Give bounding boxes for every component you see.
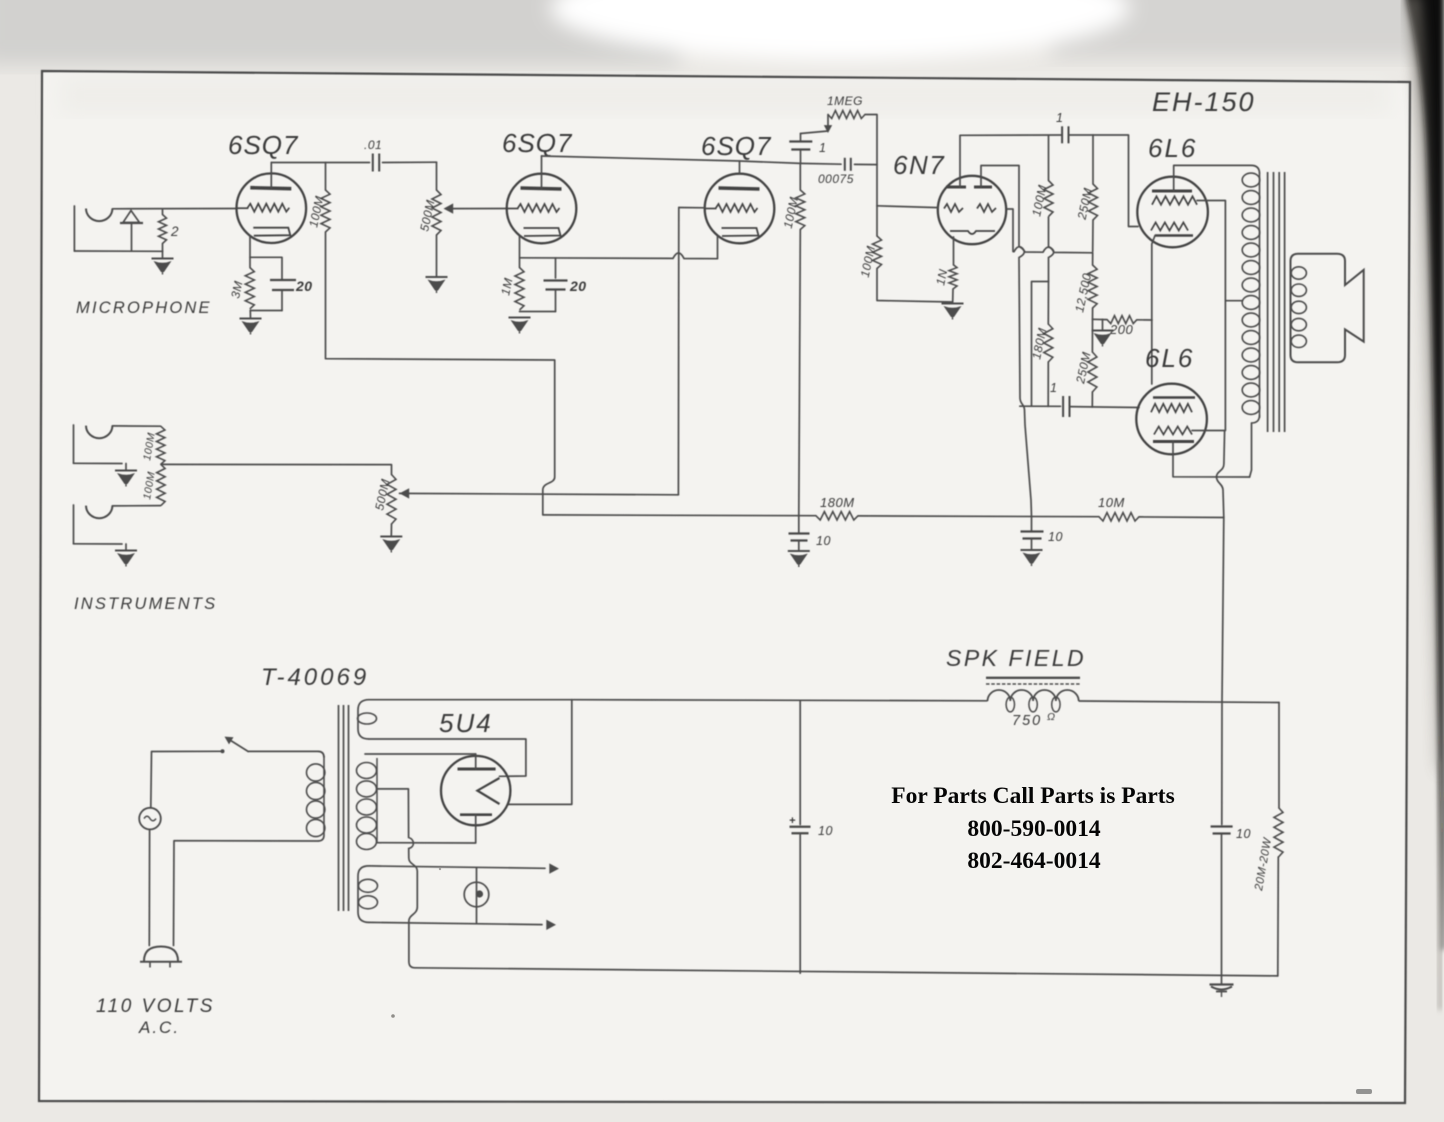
potentiometer 500M (mic volume) [436, 162, 438, 190]
capacitor 1 (to 6L6 V4 grid) [1061, 126, 1063, 143]
output transformer center tap [1225, 300, 1242, 302]
svg-text:T-40069: T-40069 [261, 664, 369, 691]
capacitor .1 [800, 134, 802, 142]
resistor 180M (inverter) [1047, 282, 1049, 325]
wire .01 to 500M pot top [383, 161, 437, 163]
wire 100M bottom with hop over grid2 line [1049, 217, 1054, 282]
svg-text:+: + [789, 815, 796, 827]
wire volume pot line (instruments) with crossing [400, 493, 679, 494]
svg-text:6L6: 6L6 [1148, 133, 1197, 163]
winding W1 (5U4 filament) [358, 700, 369, 739]
wire 6N7 plate2 long vertical with jogs [1019, 166, 1032, 517]
capacitor 10 (psu filter at field input) [799, 701, 801, 825]
wire cap to 6L6 grid [1069, 135, 1139, 227]
wire 6N7 grid1 [877, 206, 938, 208]
svg-text:6N7: 6N7 [893, 150, 945, 180]
ground (500M pot) [426, 276, 448, 278]
svg-text:1MEG: 1MEG [827, 94, 863, 108]
svg-text:800-590-0014: 800-590-0014 [967, 816, 1100, 842]
output transformer core [1267, 172, 1269, 432]
wire 6N7 plate2 jog right [981, 166, 1019, 188]
resistor 250M (V5 grid) [1091, 319, 1093, 352]
tube 6N7 [938, 176, 1006, 244]
svg-text:6SQ7: 6SQ7 [701, 131, 772, 161]
resistors 100M 100M (mixing) [157, 426, 165, 464]
wire W1 top rail / B+ takeoff [369, 699, 572, 701]
svg-text:10: 10 [816, 534, 831, 548]
tube 6SQ7 V3 [705, 174, 775, 244]
wire W2 bottom to 5U4 cathode bar [377, 825, 476, 843]
wire W2 top to 5U4 plate [365, 753, 476, 755]
ground (V2 cathode) [509, 317, 531, 319]
pilot lamp [464, 882, 489, 907]
instruments jack J2 [73, 425, 75, 463]
capacitor 20 (V2/V3 cathode) [555, 258, 557, 278]
resistor 2 (mic shunt) [162, 209, 164, 215]
potentiometer 500M (instrument volume) [387, 475, 396, 525]
speaker field coil 750 ohm [988, 690, 1079, 701]
svg-text:6SQ7: 6SQ7 [228, 130, 299, 160]
svg-text:.01: .01 [364, 138, 382, 152]
ground (bias) [1102, 319, 1104, 330]
ground rail (power) [415, 968, 1278, 976]
resistor 200 (bias) [1107, 316, 1137, 324]
wire HV center tap down to ground rail (with hops) [408, 789, 417, 968]
wire V3 plate node down to B+ bus [799, 230, 801, 516]
wire B+ feed vertical with jog [543, 360, 555, 515]
wire V4 grid(A) right to screen bus [1197, 201, 1225, 431]
svg-text:110 VOLTS: 110 VOLTS [96, 996, 215, 1017]
capacitor 10 (second bus filter) [1031, 517, 1033, 532]
resistor 1M (V2/V3 cathode) [515, 268, 524, 311]
svg-text:10M: 10M [1098, 495, 1125, 510]
resistor 3M + capacitor 20 (V1 cathode) [249, 236, 251, 268]
B+ / speaker field top rail [572, 700, 987, 701]
wire V3 grid to long feedback line [679, 207, 705, 209]
resistor 12,500 [1092, 253, 1094, 265]
wire AC bottom to plug [148, 829, 150, 945]
ground (V1 cathode) [240, 318, 262, 320]
resistor 100M (V1 plate load) [325, 163, 327, 191]
wire switch to primary [248, 750, 318, 752]
resistor 1N (6N7 cathode) [953, 237, 955, 265]
svg-text:20: 20 [569, 278, 587, 294]
svg-text:Ω: Ω [1047, 711, 1056, 723]
transformer T-40069 core [338, 705, 340, 911]
instruments jack J3 [73, 505, 75, 544]
resistor 20M-20W [1278, 703, 1280, 808]
wiper arrow to V2 grid [447, 208, 507, 210]
wire W2 center tap [377, 788, 408, 790]
svg-text:6SQ7: 6SQ7 [502, 128, 573, 158]
svg-text:A.C.: A.C. [138, 1018, 180, 1037]
resistor 10M [1099, 513, 1139, 521]
wire V5 screen(B) to bus [1192, 430, 1225, 432]
wire V3 grid vertical down to volume wire [677, 208, 679, 495]
transformer T-40069 primary [323, 756, 325, 835]
svg-text:EH-150: EH-150 [1152, 87, 1256, 117]
svg-text:1: 1 [1050, 381, 1057, 395]
capacitor 1 (to 6L6 V5 grid) [1020, 405, 1061, 407]
svg-text:802-464-0014: 802-464-0014 [967, 848, 1100, 874]
wire V4 plate to output transformer [1174, 165, 1251, 191]
wire mic sleeve bottom [74, 250, 162, 252]
svg-text:2: 2 [170, 224, 179, 239]
wire V1 plate to coupling cap .01 [271, 162, 369, 164]
wire V3 plate lead [739, 161, 741, 174]
capacitor 10 (first bus filter) [798, 516, 800, 534]
switch [228, 739, 249, 752]
svg-text:1: 1 [1056, 111, 1063, 125]
ground (mic) [152, 258, 174, 260]
svg-text:INSTRUMENTS: INSTRUMENTS [74, 595, 217, 613]
wire screen bus down with jog over plate wire, to B+ bus [1217, 431, 1225, 518]
wire node A: across and down [1032, 282, 1049, 407]
svg-text:For Parts Call Parts is Parts: For Parts Call Parts is Parts [891, 783, 1174, 809]
svg-text:SPK FIELD: SPK FIELD [946, 645, 1086, 671]
winding W2 (HV) [376, 758, 378, 843]
wire 100M down to B+ feed line [326, 232, 555, 360]
wiper arrow (instrument volume) [400, 488, 410, 498]
wire V3 cathode down to shared line [717, 236, 719, 259]
tube 6L6 V4 [1137, 177, 1208, 248]
capacitor 10 (output) [1211, 825, 1233, 827]
wire V2 cathode [519, 236, 521, 268]
resistor 1MEG [827, 115, 829, 127]
wire output B+ vertical (10M node to out cap) [1222, 518, 1224, 825]
winding W3 (6.3V filament) [358, 866, 369, 923]
capacitor .01 [372, 154, 374, 172]
svg-text:00075: 00075 [818, 172, 854, 186]
svg-text:750: 750 [1012, 713, 1042, 729]
plug 110V [144, 947, 178, 962]
svg-text:10: 10 [1048, 530, 1063, 544]
tube 5U4 [441, 756, 510, 825]
tube 6SQ7 V2 [507, 174, 577, 244]
capacitor 00075 [801, 162, 842, 165]
svg-text:10: 10 [818, 824, 833, 838]
speaker with voice coil [1291, 254, 1364, 363]
ground (main) [1210, 983, 1234, 985]
wire V5 plate to output transformer [1173, 442, 1250, 478]
svg-text:6L6: 6L6 [1145, 343, 1194, 373]
output transformer primary [1259, 173, 1261, 418]
wire shared cathode line V2-V3 with hop [520, 253, 718, 259]
svg-text:5U4: 5U4 [439, 708, 493, 738]
wire filament line B with arrow [369, 922, 542, 924]
wire primary bottom to plug [174, 841, 319, 946]
ground (6N7 cathode) [942, 303, 964, 305]
resistor 100M (6N7 grid leak) [876, 206, 878, 236]
svg-text:180M: 180M [820, 495, 855, 510]
resistor 180M (bus) [816, 512, 858, 520]
wire 6N7 plate1 up-left to cap .1 node [960, 135, 1062, 187]
wire filament line A with arrow [369, 866, 545, 868]
tube 6L6 V5 [1136, 384, 1207, 455]
AC source (110V mains) [139, 808, 161, 830]
wire V4 cathode down [1152, 236, 1155, 385]
svg-text:10: 10 [1236, 827, 1251, 841]
svg-text:1: 1 [819, 141, 826, 155]
svg-text:MICROPHONE: MICROPHONE [76, 299, 212, 317]
resistor 250M (V4 grid) [1092, 135, 1094, 184]
wire V1 plate lead [270, 163, 272, 189]
wire to instrument volume pot [161, 464, 392, 474]
rail to right corner [1079, 701, 1279, 703]
resistor 100M (V3 plate load) [799, 163, 801, 190]
wire cap to V5 grid [1070, 406, 1140, 409]
wire mic tip to 6SQ7 grid [112, 208, 236, 210]
svg-text:20: 20 [295, 278, 313, 294]
B+ bus [543, 514, 816, 517]
wire V2 plate lead and plate bus [541, 156, 543, 189]
resistor 100M (inverter divider) [1048, 135, 1050, 180]
wire W1 bottom rail to 5U4 filament [369, 739, 526, 776]
microphone jack J1 [73, 206, 75, 251]
wire AC top to switch [151, 751, 221, 808]
wire 6N7 grid2 tap line with hops [1007, 209, 1014, 252]
tube 6SQ7 V1 [236, 173, 306, 243]
